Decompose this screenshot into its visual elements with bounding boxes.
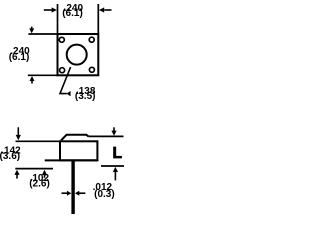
top view: extension line, top edge extended left	[28, 33, 57, 35]
dimension .240 (6.1) horizontal: right arrow	[99, 7, 112, 12]
svg-text:(3.5): (3.5)	[75, 91, 96, 102]
svg-text:(2.6): (2.6)	[29, 178, 50, 189]
dimension .012 (0.3): left arrow pointing right at lead	[62, 191, 72, 196]
dimension L: bottom arrow pointing up	[113, 167, 118, 181]
dimension .240 (6.1) vertical: top arrow pointing down	[29, 27, 34, 34]
top view: corner pin circle bottom-left	[60, 68, 65, 73]
dimension .012 (0.3): right arrow pointing left at lead	[75, 191, 85, 196]
dimension L: top arrow pointing down	[111, 127, 116, 136]
top view: extension line, bottom edge extended left	[28, 74, 58, 76]
dimension .240 (6.1) vertical: bottom arrow pointing up	[30, 76, 35, 84]
dimension L: top extension line from button top	[89, 135, 124, 137]
side view: lead pin	[71, 161, 74, 214]
leader arrowhead pointing left	[66, 91, 70, 96]
svg-text:(6.1): (6.1)	[62, 8, 83, 19]
top view: corner pin circle top-left	[59, 37, 64, 42]
top view: corner pin circle bottom-right	[89, 67, 94, 72]
top view: corner pin circle top-right	[89, 37, 94, 42]
side view: switch body outline	[60, 141, 97, 160]
top view: extension line, right edge extended up	[97, 4, 99, 34]
side view: seating plane line	[45, 159, 99, 161]
top view: switch body outline	[58, 34, 99, 75]
dimension .142 (3.6): bottom arrow pointing up	[14, 170, 19, 179]
top view: extension line, left edge extended up	[57, 4, 59, 34]
top view: center button circle	[67, 45, 87, 65]
side view: button plunger on top	[61, 135, 89, 141]
dimension L: bottom extension line	[101, 165, 124, 167]
side view: lower extension bar left	[15, 168, 53, 170]
svg-text:(6.1): (6.1)	[9, 52, 30, 63]
dimension .142 (3.6): top arrow pointing down	[16, 127, 21, 140]
svg-text:(0.3): (0.3)	[94, 189, 115, 200]
dimension .102 (2.6): arrow pointing up at bar	[42, 170, 47, 178]
side view: body top edge extended left	[16, 140, 61, 142]
svg-text:(3.6): (3.6)	[0, 151, 20, 162]
dimension .240 (6.1) horizontal: left arrow	[44, 7, 57, 12]
leader line for button diameter .138	[60, 67, 71, 94]
svg-text:L: L	[112, 145, 121, 162]
